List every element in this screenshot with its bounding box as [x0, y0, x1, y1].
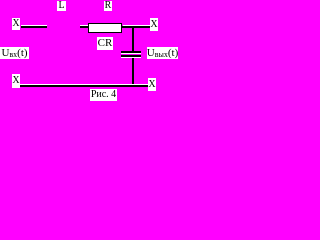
wire vertical to capacitor top: [132, 27, 134, 51]
capacitor C top plate: [121, 51, 141, 53]
node X top-left terminal: [12, 18, 20, 30]
wire from resistor right to top-right terminal: [122, 26, 150, 28]
wire into resistor left (white halo): [80, 25, 88, 26]
wire vertical from capacitor bottom: [132, 58, 134, 86]
wire bottom return (white halo): [20, 84, 148, 85]
label CR: [97, 37, 113, 50]
node X top-right terminal: [150, 18, 158, 31]
wire into resistor left: [80, 26, 88, 28]
capacitor C bottom plate white halo: [121, 57, 141, 58]
label Uvx(t) input voltage: [0, 47, 29, 59]
wire from top-left terminal: [21, 26, 47, 28]
wire from top-left terminal (white halo): [21, 25, 47, 26]
node X bottom-right terminal: [148, 78, 156, 91]
wire from resistor right to top-right terminal (white halo): [123, 25, 150, 26]
capacitor C top plate white halo: [121, 53, 141, 54]
resistor R body: [88, 23, 122, 33]
label Uvyx(t) output voltage: [147, 47, 178, 59]
inductor label L1: [57, 1, 66, 11]
resistor label R: [104, 1, 112, 11]
caption Ris. 4: [90, 89, 117, 101]
wire bottom return: [20, 85, 148, 87]
node X bottom-left terminal: [12, 74, 20, 88]
capacitor C bottom plate: [121, 55, 141, 57]
